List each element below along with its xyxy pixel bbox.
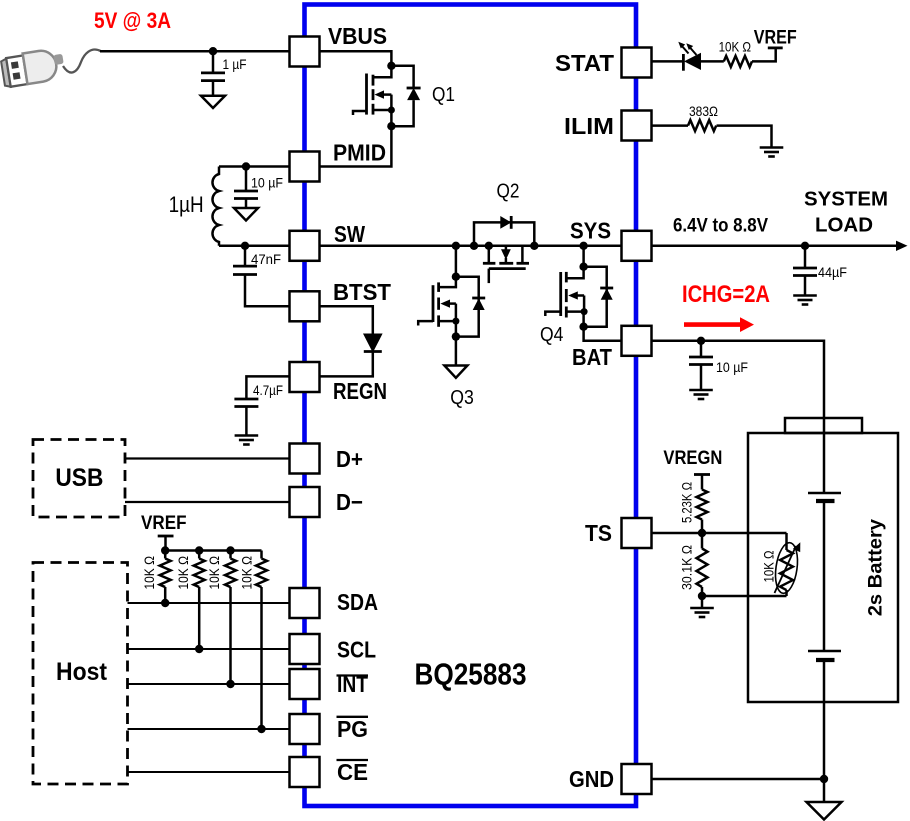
pin BTST [290,279,392,321]
node bus R2 [195,546,203,554]
capacitor 4.7uF [234,382,283,436]
pin PG (active low) [290,714,369,744]
wire battery top [823,433,826,493]
wire PMID net [219,165,290,168]
wire thermistor bottom [702,595,787,598]
svg-text:CE: CE [337,759,368,785]
wire D- [125,501,290,503]
wire SW pin to SYS pin [320,245,622,248]
svg-text:10K Ω: 10K Ω [761,551,777,583]
resistor 383ohm [688,103,718,131]
svg-text:ICHG=2A: ICHG=2A [682,281,770,308]
pin ILIM [564,111,652,141]
wire diode to REGN [320,352,373,377]
VREGN terminal [663,448,722,490]
svg-text:VBUS: VBUS [328,23,387,49]
wire D+ [125,457,290,459]
ground (earth) TS divider [690,608,714,617]
svg-text:30.1K Ω: 30.1K Ω [679,545,695,590]
node Q3 source [452,332,460,340]
svg-text:SDA: SDA [337,589,378,615]
wire REGN to 4.7uF [246,376,289,399]
svg-text:D−: D− [336,489,363,515]
wire Q1 source to PMID [320,126,392,166]
wire VBUS input [100,50,290,53]
transistor Q2 (NMOS, rotated) [483,181,529,284]
ground (earth) ILIM [760,148,784,157]
wire resistor to VREF [752,48,776,62]
node PG junction [257,725,265,733]
svg-text:SYSTEM: SYSTEM [804,189,888,211]
node Q2 diode right [530,242,538,250]
wire Host-PG [128,728,290,730]
wire SYS to Q4 [582,246,585,267]
wire STAT to LED [652,60,684,63]
pin INT (active low) [290,669,369,699]
node TS junction [698,529,706,537]
wire SW net left [219,245,290,248]
svg-text:D+: D+ [336,446,363,472]
ground (earth) under 4.7uF [235,436,259,445]
wire Host-INT [128,683,290,685]
svg-text:10K Ω: 10K Ω [239,556,255,590]
VREF terminal (pull-up rail) [141,513,187,551]
wire ground stub TS [701,596,704,608]
wire TS to thermistor top [702,532,787,535]
svg-text:SCL: SCL [337,637,376,663]
Host block (dashed box) [33,563,128,785]
svg-text:SW: SW [334,221,365,247]
battery cell 2 [808,651,841,660]
wire BAT to battery [652,341,825,433]
wire Host-SDA [128,602,290,604]
body diode of Q3 [456,277,485,337]
wire resistor to ground [717,126,772,148]
pin SDA [290,588,379,618]
svg-text:10K Ω: 10K Ω [175,556,191,590]
node Q1 source [387,122,395,130]
svg-text:BQ25883: BQ25883 [415,658,527,692]
svg-text:10 µF: 10 µF [716,359,748,375]
capacitor 47nF [233,246,281,275]
pin D+ [290,444,364,474]
node SYS-Q4 [579,242,587,250]
svg-text:TS: TS [585,520,612,546]
svg-text:6.4V to 8.8V: 6.4V to 8.8V [673,216,768,237]
ground (earth) under 44uF [793,296,817,305]
USB plug connector [0,47,66,87]
svg-text:BTST: BTST [333,279,391,305]
svg-text:Q1: Q1 [432,84,455,106]
resistor 10K (SDA pull-up) [141,551,171,604]
USB cable [63,50,101,73]
node Q4 drain [579,263,587,271]
node SW/47nF junction [241,242,249,250]
wire GND pin [652,778,825,781]
pin REGN [290,362,388,404]
battery pack box 2s Battery [748,418,898,702]
resistor 5.23K [679,482,708,533]
node BAT/10uF junction [697,337,705,345]
svg-text:1 µF: 1 µF [223,56,247,72]
wire LED to resistor [701,60,724,63]
resistor 10K (SCL pull-up) [175,551,205,650]
node Q2 drain stub [485,242,493,250]
svg-text:VREF: VREF [754,28,797,49]
ground (triangle) under 1uF [201,96,225,108]
wire battery bottom to GND [823,660,826,779]
node SW-Q3 [452,242,460,250]
svg-text:Host: Host [56,658,108,686]
svg-text:10K Ω: 10K Ω [141,556,157,590]
svg-text:LOAD: LOAD [815,215,873,237]
pin VBUS [290,23,388,67]
svg-text:5.23K Ω: 5.23K Ω [679,482,695,523]
svg-text:USB: USB [55,464,103,492]
node Q4 source [579,323,587,331]
svg-text:GND: GND [569,766,614,792]
node bus R1 [161,546,169,554]
pin SYS [570,218,652,261]
wire between cells [823,501,826,651]
inductor L1 1uH [169,167,219,246]
svg-text:4.7µF: 4.7µF [253,382,283,398]
resistor 10K (PG pull-up) [239,551,268,730]
svg-text:STAT: STAT [555,50,614,76]
ground (earth) under 10uF BAT [689,390,713,399]
transistor Q3 (NMOS) [418,277,474,409]
resistor 10K (INT pull-up) [206,551,236,685]
svg-text:Q2: Q2 [497,181,520,203]
node INT junction [226,680,234,688]
resistor 30.1K [679,533,708,596]
pin D- [290,487,364,517]
svg-text:PMID: PMID [333,140,386,166]
arrowhead SYSTEM LOAD [896,241,908,251]
transistor Q1 (NMOS) [353,66,455,126]
wire GND stub [823,779,826,802]
wire TS pin [652,532,703,535]
node SYS/44uF junction [801,242,809,250]
capacitor 10uF (PMID) [234,167,283,209]
wire SW to Q3 [455,246,458,277]
svg-text:47nF: 47nF [251,251,281,267]
svg-text:Q3: Q3 [450,387,474,409]
wire Q3 source to ground [455,337,458,366]
battery cell 1 [808,493,841,501]
thermistor RT 10K (NTC) [761,533,801,596]
capacitor 1uF [201,51,247,96]
wire BTST to bootstrap diode [320,306,373,334]
ground (triangle) main [807,802,842,820]
transistor Q4 (NMOS) [540,267,588,346]
pin GND [569,764,652,794]
VREF terminal (STAT) [754,28,797,49]
svg-text:PG: PG [337,716,368,742]
wire Host-SCL [128,648,290,650]
node 30.1K bottom junction [698,592,706,600]
node Q2 diode left [470,242,478,250]
node VBUS/1uF junction [209,47,217,55]
pin PMID [290,140,387,182]
pin SCL [290,634,377,664]
svg-text:Q4: Q4 [540,324,563,346]
wire Q4 source to BAT [584,327,622,341]
body diode of Q4 [584,267,614,327]
node GND junction [820,775,828,783]
svg-text:VREGN: VREGN [663,448,722,469]
svg-text:REGN: REGN [333,378,387,404]
pin CE (active low) [290,757,369,787]
capacitor 10uF (BAT) [689,341,748,390]
resistor 10K (STAT) [719,38,752,67]
svg-text:10K Ω: 10K Ω [206,556,222,590]
wire ILIM to resistor [652,124,689,127]
pin STAT [555,48,652,78]
node bus R3 [226,546,234,554]
capacitor 44uF [793,246,847,296]
svg-text:ILIM: ILIM [564,113,614,139]
wire VREF bus [165,549,261,552]
pin BAT [572,326,652,370]
svg-text:383Ω: 383Ω [689,103,718,119]
USB host block (dashed box) [33,440,125,518]
svg-text:2s Battery: 2s Battery [865,519,887,616]
body diode of Q2 [474,216,534,246]
LED D2 [678,42,701,71]
svg-text:1µH: 1µH [169,192,204,217]
svg-text:5V @ 3A: 5V @ 3A [94,8,171,33]
wire SYS output [652,245,899,248]
node PMID/10uF junction [242,162,250,170]
node Q3 drain [452,273,460,281]
svg-text:VREF: VREF [141,513,187,534]
ground (triangle) Q3 [444,366,467,378]
IC body BQ25883 [305,5,637,807]
ground (triangle) under 10uF [234,208,258,221]
svg-text:44µF: 44µF [818,264,847,280]
wire VBUS pin to Q1 drain [320,51,392,66]
charge current arrow (red) [684,317,754,332]
svg-text:SYS: SYS [570,218,611,244]
svg-text:BAT: BAT [572,344,612,370]
pin TS [585,518,652,548]
body diode of Q1 [391,66,420,126]
svg-text:10K Ω: 10K Ω [719,38,752,54]
node SDA junction [161,599,169,607]
pin SW [290,221,366,261]
svg-text:10 µF: 10 µF [251,175,283,191]
diode D1 (BTST-REGN) [364,334,382,352]
node SCL junction [195,645,203,653]
node Q1 drain [387,62,395,70]
wire 47nF to BTST [245,275,290,307]
wire Host-CE [128,771,290,773]
